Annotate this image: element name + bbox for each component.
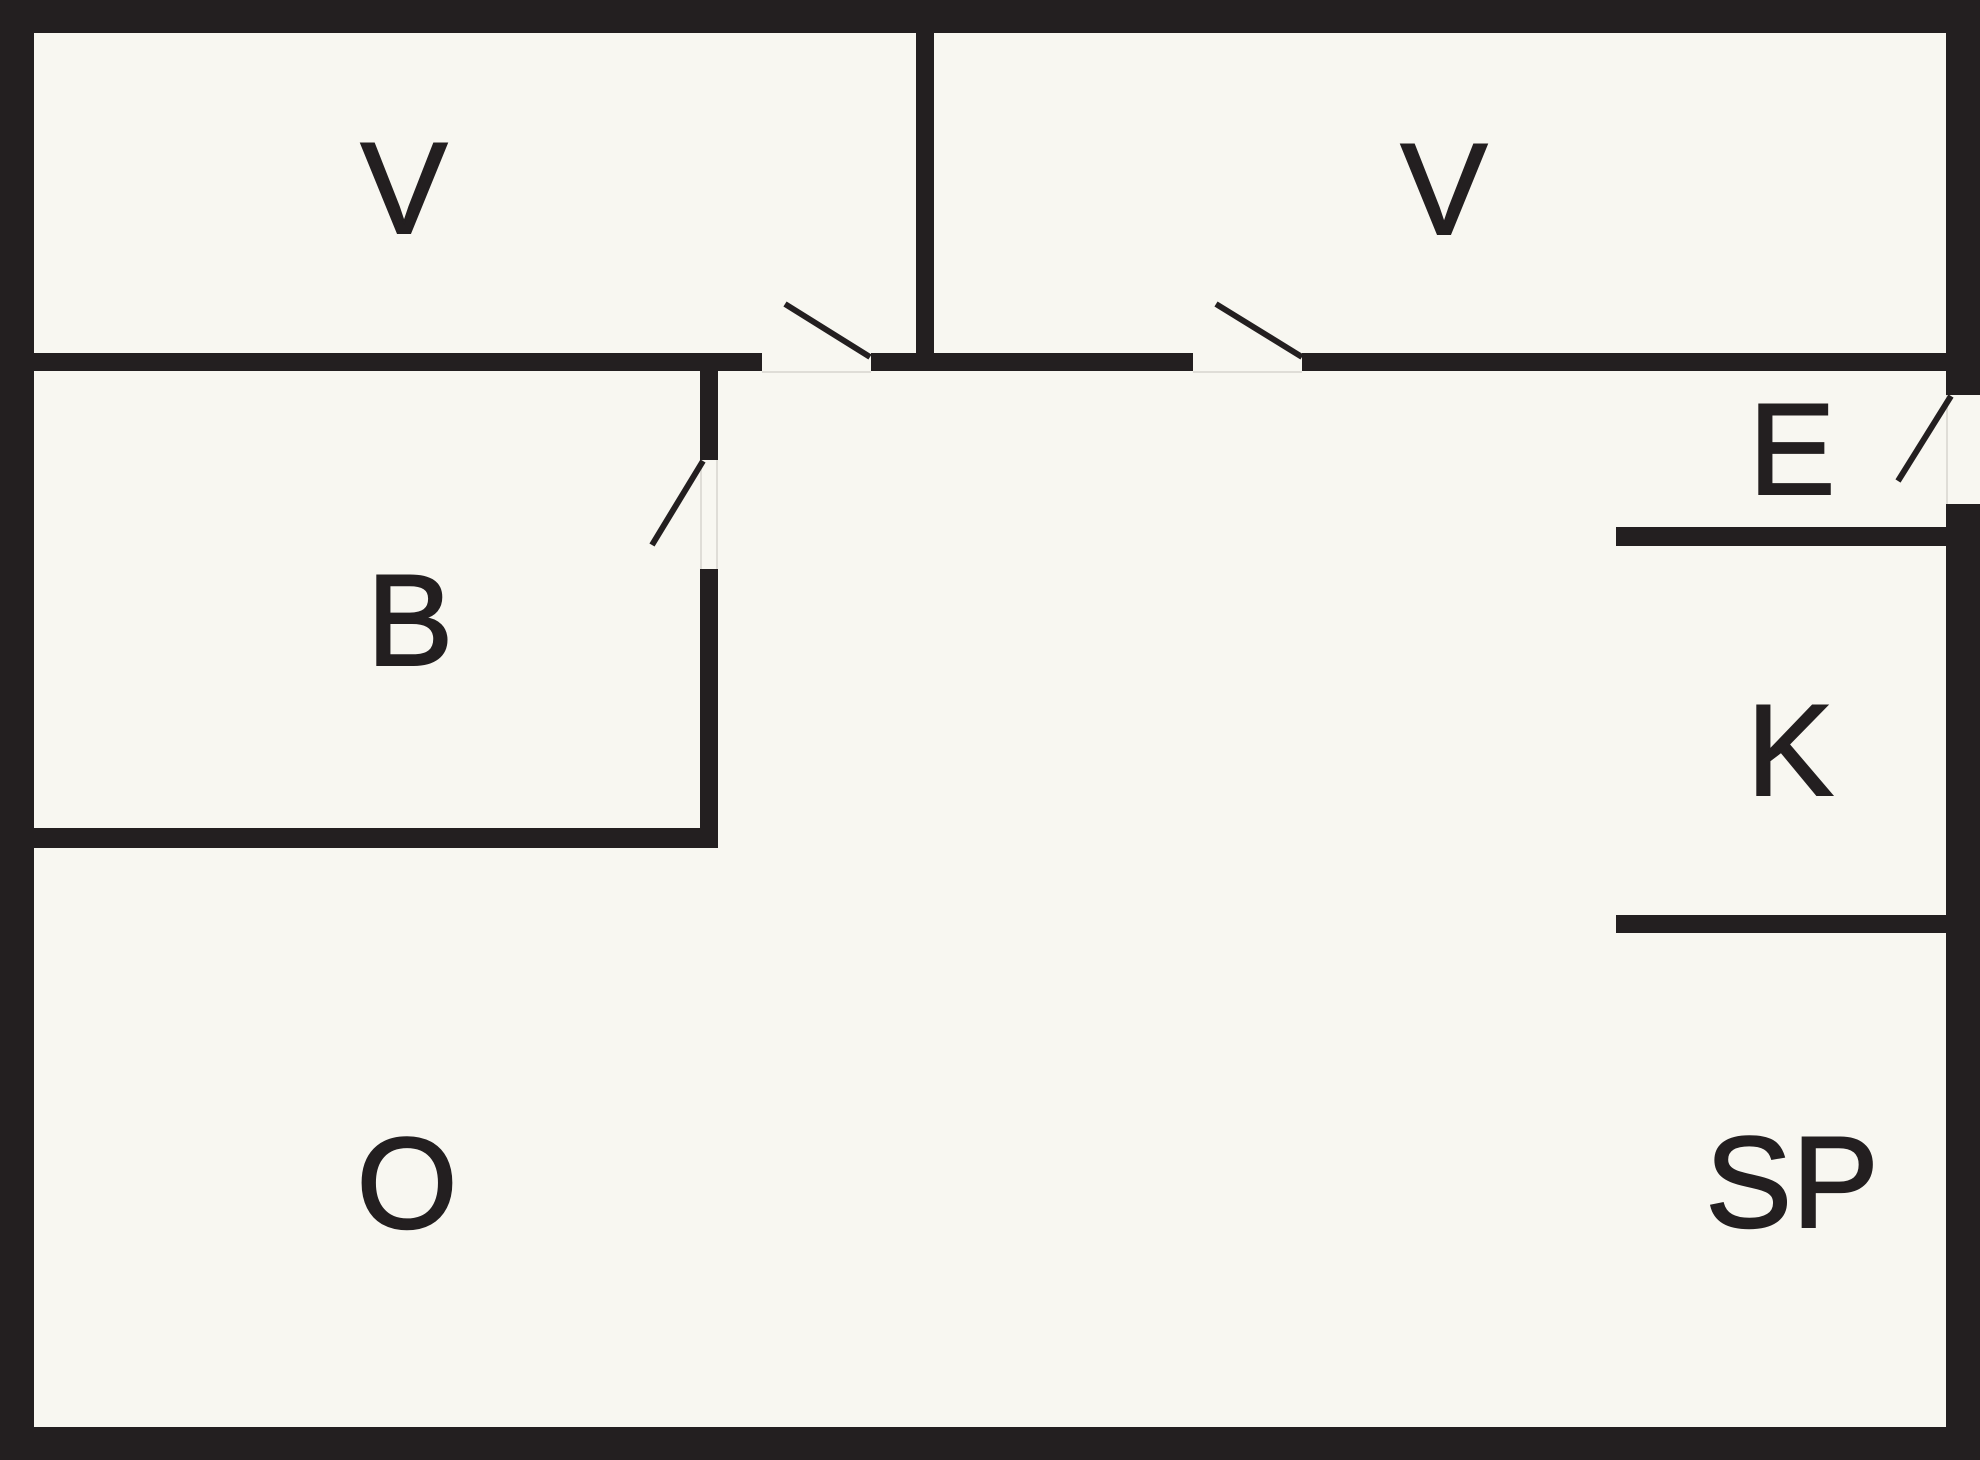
hall wall segment A (left, below V room) bbox=[34, 353, 762, 371]
door swing V2 bbox=[1216, 304, 1302, 357]
svg-text:V: V bbox=[361, 115, 448, 261]
door swing E (entry) bbox=[1898, 396, 1951, 481]
door swing B bbox=[652, 461, 703, 545]
svg-text:O: O bbox=[356, 1110, 457, 1256]
door B jamb hairlines bbox=[700, 460, 702, 569]
hall wall segment C (right) bbox=[1302, 353, 1946, 371]
svg-text:SP: SP bbox=[1705, 1109, 1878, 1255]
outer wall right upper (above entry door gap) bbox=[1946, 0, 1980, 395]
B room right wall lower bbox=[700, 569, 718, 848]
outer wall bottom bbox=[0, 1427, 1980, 1460]
door swing V1 bbox=[785, 304, 870, 357]
B room right wall upper stub bbox=[700, 371, 718, 460]
svg-text:V: V bbox=[1401, 116, 1488, 262]
door V2 threshold hairline bbox=[1193, 371, 1302, 373]
K/SP divider wall bbox=[1616, 915, 1946, 933]
B room bottom wall bbox=[34, 828, 718, 848]
outer wall top bbox=[0, 0, 1980, 33]
svg-text:K: K bbox=[1747, 677, 1834, 823]
entry door threshold hairline bbox=[1946, 395, 1948, 504]
outer wall right lower (below entry door gap) bbox=[1946, 504, 1980, 1460]
E/K divider wall bbox=[1616, 527, 1946, 546]
hall wall segment B (middle) bbox=[871, 353, 1193, 371]
svg-text:E: E bbox=[1749, 376, 1836, 522]
door V1 threshold hairline bbox=[762, 371, 871, 373]
outer wall left bbox=[0, 0, 34, 1460]
svg-text:B: B bbox=[367, 547, 454, 693]
V rooms divider wall bbox=[916, 33, 934, 371]
